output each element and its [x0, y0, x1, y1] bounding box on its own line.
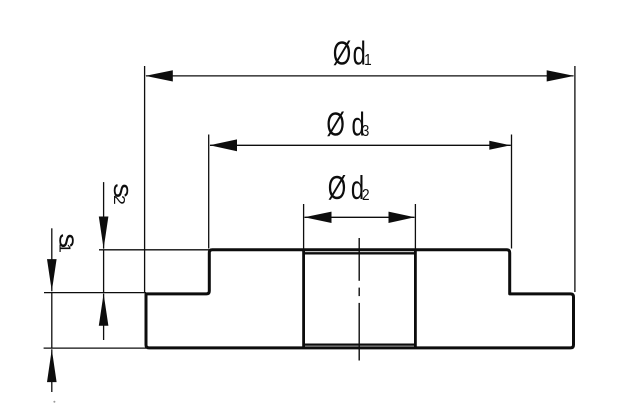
svg-text:Ø d: Ø d: [326, 107, 364, 144]
s1 arrow down: [47, 259, 57, 291]
d3 extension line left: [208, 135, 210, 249]
s2 dimension line through span: [103, 250, 105, 293]
d3 arrow left: [210, 139, 237, 151]
part outline (washer cross-section): [146, 250, 574, 348]
d2 arrow right: [389, 212, 415, 223]
centerline: [358, 238, 360, 361]
hole top chamfer line: [304, 252, 416, 254]
hole bottom chamfer line: [304, 344, 416, 346]
hole right edge: [414, 250, 417, 348]
s1 extension line (bottom, to the left): [44, 347, 146, 349]
d3 extension line right: [511, 135, 513, 249]
d1 arrow right: [547, 70, 575, 81]
s1 dimension line upper: [51, 228, 53, 291]
hole left edge: [302, 250, 305, 348]
d2 arrow left: [304, 212, 331, 223]
svg-text:Ø d: Ø d: [333, 36, 366, 73]
s1 arrow up: [47, 349, 57, 382]
svg-text:1: 1: [364, 52, 372, 69]
s2 extension line (boss top, to the left): [99, 249, 210, 251]
s2 dimension line lower: [103, 294, 105, 340]
svg-text:Ø d: Ø d: [328, 170, 364, 207]
s1 dimension line lower: [51, 349, 53, 392]
d2 dimension line: [305, 216, 415, 218]
d1 extension line left: [144, 66, 146, 292]
s2 arrow down: [99, 217, 109, 249]
s1 dimension line through span: [51, 293, 53, 349]
s2 arrow up: [99, 294, 109, 326]
stray dot: [53, 401, 55, 403]
d3 dimension line: [210, 144, 511, 146]
d1 extension line right: [574, 66, 576, 292]
svg-text:3: 3: [362, 123, 370, 140]
d2 extension line left: [303, 204, 305, 250]
s2 dimension line upper: [103, 182, 105, 249]
svg-text:2: 2: [362, 187, 370, 204]
s1/s2 extension line (outer top, to the left): [44, 292, 146, 294]
d1 dimension line: [146, 75, 574, 77]
d3 arrow right: [489, 141, 510, 150]
d2 extension line right: [414, 204, 416, 250]
d1 arrow left: [145, 70, 173, 81]
